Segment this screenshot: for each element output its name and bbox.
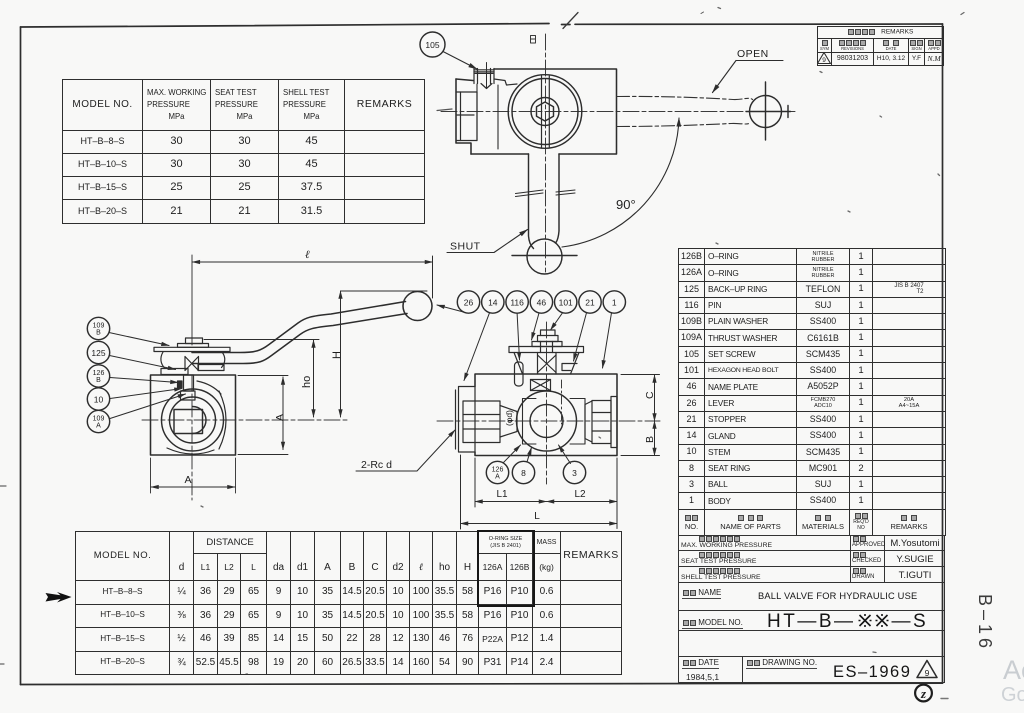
- balloon 126A: [486, 445, 520, 484]
- svg-text:1: 1: [612, 298, 617, 308]
- dim H: [331, 291, 427, 417]
- left sleeve and hex port: [456, 387, 518, 453]
- B-16 vertical sheet number: [975, 594, 995, 652]
- row5 model no: [682, 618, 743, 629]
- open lever ball: [746, 82, 791, 140]
- short dashed line right of stem: [561, 380, 563, 424]
- balloon 46: [530, 291, 552, 340]
- body block (side): [151, 375, 236, 455]
- scan dirt specks: [201, 8, 964, 653]
- valve body (plan): [456, 69, 617, 154]
- stray specks at left edge: [0, 486, 248, 674]
- svg-text:125: 125: [91, 348, 105, 358]
- stem slot lines: [542, 76, 550, 147]
- balloon 3: [559, 445, 586, 484]
- svg-text:46: 46: [537, 298, 547, 308]
- flange circle: [508, 75, 582, 149]
- balloon 1: [603, 291, 626, 368]
- svg-text:B–16: B–16: [975, 594, 995, 652]
- svg-text:126: 126: [492, 467, 504, 474]
- svg-text:B: B: [644, 436, 656, 443]
- svg-text:Go: Go: [1001, 684, 1024, 706]
- horizontal center line: [441, 111, 795, 113]
- svg-text:ℓ: ℓ: [305, 249, 310, 261]
- circled 2 page number: [915, 685, 932, 702]
- stopper 21: [562, 364, 577, 371]
- pin 116: [515, 362, 524, 386]
- svg-text:90°: 90°: [616, 197, 636, 212]
- svg-text:SHUT: SHUT: [450, 241, 481, 253]
- 2-Rc d label: [356, 430, 455, 471]
- svg-text:14: 14: [488, 298, 498, 308]
- tiny section mark above top view: [531, 36, 536, 44]
- svg-text:2-Rc d: 2-Rc d: [361, 459, 392, 471]
- port center line: [142, 375, 348, 500]
- dim C: [621, 375, 660, 422]
- balloon 109B: [87, 317, 169, 345]
- balloon 105: [420, 32, 477, 69]
- black pointer arrow left of dimension table: [46, 592, 72, 603]
- svg-text:116: 116: [510, 298, 524, 308]
- stray dash right of pressure table: [437, 109, 452, 111]
- svg-text:A: A: [274, 414, 286, 421]
- small dash near circled 2: [941, 698, 948, 700]
- stem (section): [531, 342, 557, 391]
- right hex port: [585, 397, 617, 448]
- dim l (top length): [192, 249, 432, 298]
- balloon 109A: [87, 394, 185, 433]
- svg-text:(φd): (φd): [504, 410, 514, 426]
- svg-text:105: 105: [425, 40, 439, 50]
- port circles: [162, 389, 224, 451]
- stem and gland stack: [154, 338, 230, 400]
- svg-text:A: A: [184, 474, 191, 486]
- svg-text:L1: L1: [496, 489, 508, 500]
- svg-text:ho: ho: [301, 376, 313, 388]
- balloon 101: [551, 291, 577, 330]
- dim A vertical: [238, 376, 288, 455]
- 90 deg label: [616, 197, 636, 212]
- vertical center line: [545, 34, 547, 272]
- dim L: [461, 455, 618, 529]
- svg-text:OPEN: OPEN: [737, 48, 769, 60]
- dim ho: [204, 340, 319, 418]
- svg-text:Ac: Ac: [1003, 655, 1024, 685]
- handle (side): [192, 292, 432, 364]
- svg-text:z: z: [920, 686, 927, 701]
- set screw boss 105: [474, 63, 494, 89]
- body (section): [475, 374, 617, 456]
- SHUT label: [447, 230, 528, 253]
- svg-text:126: 126: [93, 370, 105, 377]
- stem circle and hex socket: [531, 98, 559, 126]
- dim L2: [547, 489, 618, 502]
- hex silhouette bulges: [167, 381, 226, 454]
- svg-text:L2: L2: [574, 489, 586, 500]
- stem axis center line: [191, 255, 193, 345]
- svg-text:109: 109: [93, 416, 105, 423]
- balloon 26: [437, 291, 480, 313]
- triangle 9 after ES-1969: [917, 661, 937, 679]
- svg-text:A: A: [495, 474, 500, 481]
- row3: [698, 568, 740, 574]
- balloon 8: [512, 448, 534, 484]
- open lever (phantom) outline: [617, 96, 753, 126]
- dim B: [621, 421, 660, 456]
- dim L1: [475, 458, 617, 529]
- svg-text:26: 26: [464, 298, 474, 308]
- 90 degree arc: [562, 118, 679, 247]
- svg-text:101: 101: [559, 298, 573, 308]
- row2: [698, 552, 740, 558]
- thick highlight box over o-ring columns: [477, 530, 535, 607]
- balloon 21: [574, 291, 602, 361]
- svg-text:B: B: [96, 330, 101, 337]
- svg-text:3: 3: [572, 468, 577, 478]
- dim A horizontal: [151, 458, 236, 493]
- ball and seats: [517, 391, 586, 451]
- svg-text:109: 109: [93, 323, 105, 330]
- svg-text:B: B: [96, 377, 101, 384]
- section center lines: [437, 322, 660, 484]
- row7 date / drawing no: [682, 658, 719, 669]
- OPEN label: [713, 48, 784, 93]
- svg-text:C: C: [644, 391, 656, 399]
- revision triangle symbol in SYM cell: [818, 53, 831, 65]
- balloon 126B: [87, 365, 178, 387]
- hexagon head bolt: [538, 330, 559, 342]
- (phi d) label: [504, 410, 514, 426]
- lever break marks: [516, 190, 576, 197]
- balloon 14: [464, 291, 504, 381]
- balloon 10: [87, 388, 182, 410]
- gland plate and name plate: [509, 342, 584, 375]
- col borders rows1-3: [850, 535, 851, 582]
- balloon 125: [87, 341, 175, 369]
- svg-text:8: 8: [521, 468, 526, 478]
- fold slash mark on top border: [563, 13, 578, 29]
- svg-text:A: A: [96, 423, 101, 430]
- row4 name: [682, 588, 721, 599]
- row1: max working pressure / approved: [698, 536, 740, 542]
- row borders: [678, 550, 945, 551]
- gray watermark fragments: [1001, 655, 1024, 706]
- svg-text:10: 10: [94, 395, 104, 405]
- balloon 116: [506, 291, 528, 360]
- svg-text:H: H: [331, 351, 343, 359]
- svg-text:L: L: [534, 511, 540, 522]
- svg-text:21: 21: [585, 298, 595, 308]
- shut lever outline: [512, 154, 577, 274]
